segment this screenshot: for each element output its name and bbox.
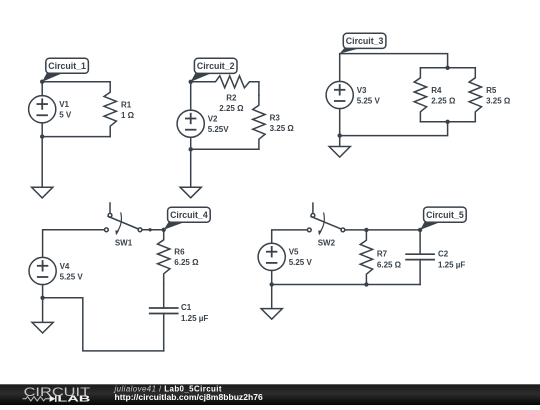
node circuit 5 C2 top (418, 228, 422, 232)
svg-text:R2: R2 (226, 94, 237, 103)
svg-text:5.25V: 5.25V (208, 125, 230, 134)
node circuit 2 top (189, 80, 193, 84)
svg-text:V1: V1 (59, 100, 69, 109)
svg-text:R7: R7 (377, 250, 388, 259)
svg-text:V5: V5 (289, 248, 299, 257)
svg-text:5.25 V: 5.25 V (289, 258, 313, 267)
svg-text:3.25 Ω: 3.25 Ω (486, 97, 511, 106)
wire V5 to switch (272, 230, 308, 243)
wire bottom rail circuit 2 (191, 148, 259, 150)
svg-text:2.25 Ω: 2.25 Ω (431, 97, 456, 106)
voltage source V2 (177, 110, 229, 137)
node circuit 2 bottom (189, 147, 193, 151)
switch SW2 (307, 203, 344, 247)
svg-text:R1: R1 (121, 100, 132, 109)
svg-text:LAB: LAB (57, 394, 91, 403)
node circuit 5 V5 bottom (270, 282, 274, 286)
svg-text:1 Ω: 1 Ω (121, 111, 135, 120)
wire V1 bottom lead (41, 123, 43, 137)
capacitor C2 (406, 230, 465, 285)
ground (32, 298, 53, 333)
callout Circuit_2 (191, 58, 237, 82)
node circuit 3 ground (338, 133, 342, 137)
svg-text:R3: R3 (270, 113, 281, 122)
svg-text:3.25 Ω: 3.25 Ω (270, 124, 295, 133)
callout Circuit_1 (42, 58, 88, 81)
svg-text:1.25 µF: 1.25 µF (438, 260, 465, 269)
node circuit 3 parallel top (445, 66, 449, 70)
wire V4 to switch (43, 230, 105, 258)
resistor R2 (191, 76, 259, 113)
wire V3 top lead (339, 54, 341, 82)
svg-text:SW2: SW2 (318, 239, 336, 248)
svg-text:V2: V2 (208, 115, 218, 124)
svg-text:5.25 V: 5.25 V (60, 272, 84, 281)
svg-text:Circuit_4: Circuit_4 (170, 210, 208, 220)
resistor R5 (469, 68, 511, 122)
svg-text:R4: R4 (431, 86, 442, 95)
node circuit 1 bottom (40, 134, 44, 138)
svg-text:5.25 V: 5.25 V (357, 96, 381, 105)
node wire joint (148, 228, 151, 231)
svg-text:Circuit_1: Circuit_1 (48, 61, 86, 71)
wire V3 bottom lead (339, 109, 341, 136)
ground (32, 137, 53, 198)
svg-text:1.25 µF: 1.25 µF (181, 314, 208, 323)
voltage source V3 (326, 81, 380, 108)
voltage source V1 (29, 96, 72, 123)
svg-text:V3: V3 (357, 86, 367, 95)
node circuit 4 ground (40, 296, 44, 300)
wire V2 bottom lead (190, 137, 192, 149)
callout Circuit_5 (420, 207, 466, 230)
node circuit 5 R7 top (364, 228, 368, 232)
resistor R6 (158, 230, 200, 284)
svg-text:C2: C2 (438, 250, 449, 259)
svg-text:Circuit_3: Circuit_3 (346, 36, 384, 46)
resistor R4 (414, 68, 456, 122)
ground (329, 136, 350, 158)
CircuitLab logo (23, 386, 91, 403)
wire bottom return circuit 3 (340, 122, 448, 136)
svg-text:http://circuitlab.com/cj8m8bbu: http://circuitlab.com/cj8m8bbuz2h76 (115, 393, 264, 402)
voltage source V4 (29, 257, 83, 284)
wire bottom return circuit 4 (43, 298, 164, 351)
svg-text:Circuit_5: Circuit_5 (426, 210, 464, 220)
wire bottom rail circuit 1 (42, 136, 110, 138)
wire top rail circuit 1 (42, 81, 110, 83)
svg-text:6.25 Ω: 6.25 Ω (174, 258, 199, 267)
resistor R3 (253, 82, 295, 150)
svg-text:2.25 Ω: 2.25 Ω (219, 104, 244, 113)
capacitor C1 (150, 284, 209, 351)
wire parallel top rail (420, 67, 475, 69)
wire V4 bottom lead (42, 285, 44, 298)
wire switch to node circuit 4 (142, 229, 164, 231)
svg-text:6.25 Ω: 6.25 Ω (377, 260, 402, 269)
ground (180, 149, 201, 198)
node circuit 3 parallel bottom (445, 120, 449, 124)
svg-text:V4: V4 (60, 262, 70, 271)
wire top rail circuit 3 (340, 54, 448, 68)
node circuit 5 R7 bottom (364, 282, 368, 286)
node circuit 1 top (40, 80, 44, 84)
wire V1 top lead (41, 82, 43, 96)
svg-text:5 V: 5 V (59, 111, 72, 120)
callout Circuit_3 (340, 33, 386, 53)
wire bottom rail circuit 5 (272, 284, 420, 286)
callout Circuit_4 (164, 207, 211, 230)
voltage source V5 (258, 243, 312, 270)
wire switch to C2 top (345, 229, 420, 231)
resistor R7 (360, 230, 401, 285)
wire V5 bottom lead (271, 271, 273, 285)
svg-text:R6: R6 (174, 248, 185, 257)
ground (261, 285, 282, 320)
svg-text:R5: R5 (486, 86, 497, 95)
switch SW1 (105, 203, 142, 247)
wire V2 top lead (190, 82, 192, 110)
svg-text:Circuit_2: Circuit_2 (197, 61, 235, 71)
node circuit 4 R6 top (162, 228, 166, 232)
svg-text:SW1: SW1 (115, 238, 133, 247)
resistor R1 (104, 82, 135, 137)
svg-text:C1: C1 (181, 303, 192, 312)
wire parallel bottom rail (420, 121, 475, 123)
